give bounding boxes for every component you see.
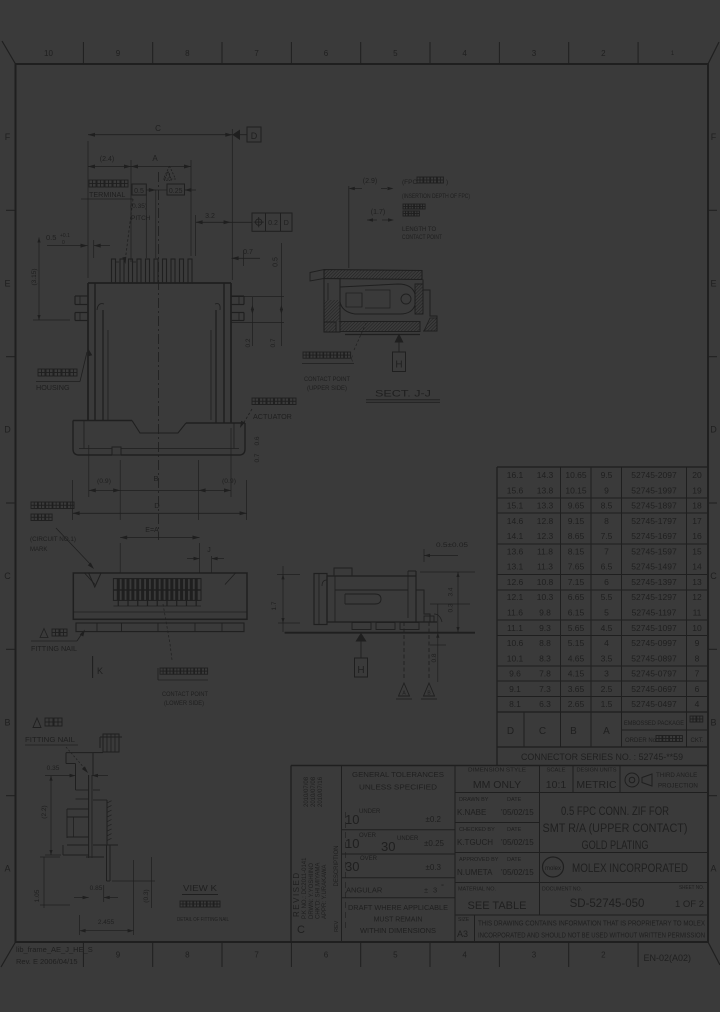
svg-text:DETAIL OF FITTING NAIL: DETAIL OF FITTING NAIL	[177, 917, 229, 923]
border zone numbers bottom	[116, 951, 606, 960]
svg-text:6.3: 6.3	[539, 699, 551, 709]
svg-text:SD-52745-050: SD-52745-050	[570, 898, 645, 910]
material no cell	[458, 887, 526, 913]
border zone letters	[4, 132, 717, 874]
front view right fitting tabs	[231, 296, 244, 321]
svg-text:7.65: 7.65	[568, 562, 585, 572]
svg-text:INCORPORATED AND SHOULD NOT BE: INCORPORATED AND SHOULD NOT BE USED WITH…	[478, 933, 705, 940]
dimension 0.7 right	[232, 249, 260, 266]
view K title	[177, 883, 229, 923]
svg-text:8.65: 8.65	[568, 531, 585, 541]
svg-text:0: 0	[62, 240, 65, 246]
side view actuator lever	[314, 574, 327, 625]
svg-text:20: 20	[692, 470, 702, 480]
svg-text:2: 2	[601, 951, 606, 960]
svg-text:6: 6	[324, 49, 329, 58]
svg-text:1.5: 1.5	[601, 699, 613, 709]
svg-text:A: A	[4, 864, 10, 874]
svg-text:P.K NO.: DC2011-0141: P.K NO.: DC2011-0141	[302, 857, 308, 919]
svg-text:FITTING NAIL: FITTING NAIL	[31, 646, 77, 653]
svg-text:9.15: 9.15	[568, 516, 585, 526]
side view body profile	[327, 568, 437, 622]
svg-text:(2.4): (2.4)	[100, 156, 114, 163]
svg-text:8.8: 8.8	[539, 638, 551, 648]
svg-text:C: C	[710, 571, 717, 581]
svg-text:UNDER: UNDER	[359, 809, 381, 815]
terminal label	[81, 180, 133, 264]
svg-text:15.1: 15.1	[507, 501, 524, 511]
svg-text:14.1: 14.1	[507, 531, 524, 541]
view K dim 1.05	[34, 857, 70, 908]
section J-J terminal	[340, 284, 415, 314]
svg-text:10: 10	[345, 836, 359, 851]
svg-text:7: 7	[254, 49, 259, 58]
svg-text:0.5 FPC CONN. ZIF FOR: 0.5 FPC CONN. ZIF FOR	[561, 806, 669, 818]
svg-text:8.5: 8.5	[601, 501, 613, 511]
svg-text:C: C	[155, 124, 161, 133]
svg-text:4.15: 4.15	[568, 669, 585, 679]
border zone numbers top	[44, 49, 675, 58]
svg-text:UNLESS SPECIFIED: UNLESS SPECIFIED	[359, 783, 437, 792]
right side small vertical dims	[231, 243, 284, 348]
svg-text:(UPPER SIDE): (UPPER SIDE)	[307, 385, 347, 392]
dimension (0.9) right	[199, 428, 236, 520]
svg-text:WITHIN DIMENSIONS: WITHIN DIMENSIONS	[360, 928, 436, 935]
fitting nail label (view K)	[25, 718, 90, 774]
svg-text:16: 16	[692, 531, 702, 541]
revision strip (rotated)	[292, 776, 346, 936]
svg-text:UNDER: UNDER	[397, 836, 419, 842]
svg-text:(INSERTION DEPTH OF FPC): (INSERTION DEPTH OF FPC)	[402, 194, 470, 200]
svg-text:OVER: OVER	[359, 833, 377, 839]
svg-text:0.7: 0.7	[243, 249, 253, 256]
svg-text:N.UMETA: N.UMETA	[457, 868, 493, 877]
svg-text:DATE: DATE	[507, 827, 522, 833]
svg-text:52745-1397: 52745-1397	[631, 577, 677, 587]
svg-text:52745-1597: 52745-1597	[631, 546, 677, 556]
svg-text:DATE: DATE	[507, 797, 522, 803]
dimension B	[120, 474, 198, 490]
svg-text:CHK'D: SHI.MIYAMA: CHK'D: SHI.MIYAMA	[316, 863, 322, 919]
svg-text:APPROVED BY: APPROVED BY	[459, 857, 499, 863]
front view terminals row	[112, 259, 193, 283]
dimension style cell	[468, 768, 526, 792]
svg-text:6.15: 6.15	[568, 608, 585, 618]
svg-text:HOUSING: HOUSING	[36, 383, 70, 392]
svg-text:1 OF 2: 1 OF 2	[675, 899, 704, 910]
svg-text:4: 4	[604, 638, 609, 648]
svg-text:C: C	[539, 726, 546, 737]
svg-text:MARK: MARK	[30, 547, 47, 553]
dimension (2.4)	[88, 156, 131, 262]
svg-text:ORDER No.: ORDER No.	[625, 738, 658, 744]
scale cell	[546, 768, 567, 792]
svg-text:0.5: 0.5	[46, 233, 56, 242]
svg-text:SMT R/A (UPPER CONTACT): SMT R/A (UPPER CONTACT)	[543, 823, 688, 835]
svg-text:(0.3): (0.3)	[143, 889, 150, 902]
svg-text:DOCUMENT NO.: DOCUMENT NO.	[542, 887, 582, 893]
document no cell	[542, 885, 704, 910]
general tolerances block	[345, 770, 448, 935]
svg-text:PROJECTION: PROJECTION	[658, 783, 698, 790]
front view left fitting tabs	[75, 296, 88, 321]
svg-text:K: K	[97, 666, 103, 676]
svg-text:52745-1297: 52745-1297	[631, 592, 677, 602]
svg-text:K.NABE: K.NABE	[457, 808, 486, 817]
svg-text:3.65: 3.65	[568, 684, 585, 694]
svg-text:4: 4	[462, 49, 467, 58]
svg-text:MUST REMAIN: MUST REMAIN	[374, 917, 423, 924]
view K arrow	[93, 656, 103, 678]
dimension (0.9) left	[89, 445, 120, 520]
svg-text:SEE TABLE: SEE TABLE	[468, 900, 527, 912]
svg-text:DRWN: Y.YOSHIINO: DRWN: Y.YOSHIINO	[309, 863, 315, 919]
boxed 0.25 dim	[146, 172, 196, 259]
svg-text:12.8: 12.8	[537, 516, 554, 526]
svg-text:14.3: 14.3	[537, 470, 554, 480]
svg-text:10.8: 10.8	[537, 577, 554, 587]
title block grid	[291, 766, 708, 943]
svg-text:K.TGUCH: K.TGUCH	[457, 838, 493, 847]
position tolerance box 0.2 D	[252, 213, 292, 231]
svg-text:GENERAL TOLERANCES: GENERAL TOLERANCES	[352, 770, 444, 779]
contact length labels	[402, 204, 442, 241]
svg-text:CONTACT POINT: CONTACT POINT	[162, 691, 208, 698]
svg-text:VIEW K: VIEW K	[183, 883, 217, 893]
svg-text:SCALE: SCALE	[546, 768, 565, 774]
svg-text:9.8: 9.8	[539, 608, 551, 618]
svg-text:±: ±	[424, 886, 428, 895]
svg-text:30: 30	[345, 859, 359, 874]
svg-text:15.6: 15.6	[507, 485, 524, 495]
svg-text:8: 8	[185, 49, 190, 58]
view K dim (0.3) right	[112, 857, 155, 908]
svg-text:52745-0997: 52745-0997	[631, 638, 677, 648]
svg-text:7: 7	[695, 669, 700, 679]
third angle projection symbol	[625, 772, 698, 790]
svg-text:2010/07/16: 2010/07/16	[318, 776, 324, 807]
svg-text:3: 3	[532, 49, 537, 58]
view K dim 0.35	[47, 765, 108, 790]
svg-text:SIZE: SIZE	[458, 917, 470, 923]
svg-text:D: D	[251, 131, 258, 141]
svg-text:13.6: 13.6	[507, 546, 524, 556]
side view H datum arrow	[355, 633, 368, 677]
svg-text:9.6: 9.6	[509, 669, 521, 679]
svg-text:14: 14	[692, 562, 702, 572]
svg-text:2: 2	[601, 49, 606, 58]
svg-text:9: 9	[116, 49, 121, 58]
svg-text:7: 7	[604, 546, 609, 556]
datum D flag	[232, 127, 261, 142]
dimension J	[187, 547, 224, 573]
size + proprietary note	[457, 917, 705, 940]
svg-text:5: 5	[393, 951, 398, 960]
svg-text:F: F	[711, 132, 717, 142]
svg-text:0.6: 0.6	[254, 436, 261, 445]
table header row	[507, 716, 704, 744]
dimension 3.2 with position tolerance	[196, 213, 252, 256]
svg-text:APPR: Y.URAKAWA: APPR: Y.URAKAWA	[322, 865, 328, 919]
svg-text:D: D	[710, 425, 717, 435]
svg-text:5.65: 5.65	[568, 623, 585, 633]
svg-text:10.1: 10.1	[507, 653, 524, 663]
svg-text:'05/02/15: '05/02/15	[501, 838, 534, 847]
svg-text:A: A	[710, 864, 716, 874]
front view actuator	[73, 421, 245, 456]
svg-text:DIMENSION STYLE: DIMENSION STYLE	[468, 768, 526, 774]
svg-text:12.3: 12.3	[537, 531, 554, 541]
svg-text:10: 10	[44, 49, 53, 58]
svg-text:11.8: 11.8	[537, 546, 553, 556]
svg-text:4.65: 4.65	[568, 653, 585, 663]
svg-text:12.1: 12.1	[507, 592, 524, 602]
svg-text:1.7: 1.7	[271, 601, 278, 610]
svg-text:7.5: 7.5	[601, 531, 613, 541]
svg-text:A: A	[603, 726, 610, 737]
svg-text:52745-1497: 52745-1497	[631, 562, 677, 572]
svg-text:E: E	[710, 278, 716, 288]
svg-text:PITCH: PITCH	[131, 215, 151, 222]
svg-text:6: 6	[604, 577, 609, 587]
svg-text:9.65: 9.65	[568, 501, 585, 511]
svg-text:0.85: 0.85	[90, 885, 103, 892]
svg-text:(FPC: (FPC	[402, 179, 417, 186]
section J-J right hatched body	[415, 280, 437, 332]
side view solder pads	[352, 614, 442, 630]
svg-text:52745-2097: 52745-2097	[631, 470, 677, 480]
svg-text:0.35: 0.35	[47, 765, 60, 772]
svg-text:DRAFT WHERE APPLICABLE: DRAFT WHERE APPLICABLE	[348, 905, 448, 912]
svg-text:'05/02/15: '05/02/15	[501, 868, 534, 877]
circuit no.1 V mark	[89, 573, 101, 587]
svg-text:CONTACT POINT: CONTACT POINT	[402, 235, 442, 241]
svg-text:8.15: 8.15	[568, 546, 585, 556]
svg-text:8.3: 8.3	[539, 653, 551, 663]
view K dim 0.85	[74, 860, 118, 902]
svg-text:7.15: 7.15	[568, 577, 585, 587]
svg-text:18: 18	[692, 501, 702, 511]
svg-text:13.1: 13.1	[507, 562, 524, 572]
svg-text:3: 3	[433, 886, 437, 895]
housing label	[36, 348, 92, 392]
dimension A	[131, 154, 191, 256]
svg-text:2.5: 2.5	[601, 684, 613, 694]
svg-text:10:1: 10:1	[546, 779, 567, 791]
svg-text:12.6: 12.6	[507, 577, 524, 587]
svg-text:6: 6	[695, 684, 700, 694]
svg-text:16.1: 16.1	[507, 470, 524, 480]
svg-text:(LOWER SIDE): (LOWER SIDE)	[164, 700, 204, 707]
svg-text:METRIC: METRIC	[576, 779, 617, 791]
svg-text:D: D	[4, 425, 11, 435]
view K dim (2.2)	[41, 776, 61, 855]
svg-text:0.8: 0.8	[431, 653, 438, 662]
front view centerline	[158, 172, 160, 540]
bottom view body	[73, 573, 247, 619]
front view housing outline	[88, 283, 231, 423]
svg-text:GOLD PLATING: GOLD PLATING	[582, 840, 649, 852]
svg-text:52745-1897: 52745-1897	[631, 501, 677, 511]
svg-text:FITTING NAIL: FITTING NAIL	[25, 737, 75, 744]
svg-text:DATE: DATE	[507, 857, 522, 863]
svg-text:52745-1097: 52745-1097	[631, 623, 677, 633]
svg-text:52745-1197: 52745-1197	[632, 608, 677, 618]
svg-text:B: B	[153, 474, 158, 483]
svg-text:7: 7	[254, 951, 259, 960]
svg-text:±0.25: ±0.25	[424, 839, 445, 848]
svg-text:0.3: 0.3	[448, 603, 455, 612]
dimension C	[88, 124, 232, 280]
contact length dim (1.7)	[367, 209, 394, 222]
svg-text:MATERIAL NO.: MATERIAL NO.	[458, 887, 496, 893]
frame footer text	[16, 945, 691, 966]
contact point (upper) label	[302, 321, 367, 392]
svg-text:5: 5	[604, 608, 609, 618]
svg-text:10: 10	[692, 623, 702, 633]
svg-text:CONNECTOR SERIES NO. : 52745-*: CONNECTOR SERIES NO. : 52745-**59	[521, 752, 683, 762]
svg-text:0.5: 0.5	[134, 188, 144, 195]
part number table grid	[291, 467, 708, 766]
svg-text:(1.7): (1.7)	[371, 209, 385, 216]
svg-text:9.5: 9.5	[601, 470, 613, 480]
svg-text:9.1: 9.1	[509, 684, 521, 694]
svg-text:8.1: 8.1	[509, 699, 521, 709]
svg-text:DESCRIPTION: DESCRIPTION	[334, 845, 340, 886]
svg-text:THIS DRAWING CONTAINS INFORMAT: THIS DRAWING CONTAINS INFORMATION THAT I…	[478, 921, 705, 928]
svg-text:2.455: 2.455	[98, 919, 115, 926]
svg-text:DRAWN BY: DRAWN BY	[459, 797, 489, 803]
svg-text:8: 8	[604, 516, 609, 526]
connector series note	[521, 752, 683, 762]
svg-text:B: B	[4, 717, 10, 727]
section H datum arrow	[393, 334, 406, 372]
svg-text:52745-0897: 52745-0897	[631, 653, 677, 663]
svg-text:2010/07/08: 2010/07/08	[311, 776, 317, 807]
molex logo	[543, 857, 564, 877]
svg-text:5.15: 5.15	[568, 638, 585, 648]
svg-text:TERMINAL: TERMINAL	[89, 190, 125, 199]
svg-text:2.65: 2.65	[568, 699, 585, 709]
section title SECT J-J	[366, 389, 440, 403]
section J-J bottom hatched bar	[340, 322, 420, 335]
svg-text:D: D	[154, 501, 160, 510]
svg-text:F: F	[5, 132, 11, 142]
drawn/checked/approved cells	[457, 797, 534, 877]
pcb mounting line	[285, 632, 475, 634]
svg-text:CKT.: CKT.	[690, 738, 703, 744]
svg-text:4: 4	[695, 699, 700, 709]
svg-text:9: 9	[695, 638, 700, 648]
svg-text:12: 12	[692, 592, 702, 602]
svg-text:±0.2: ±0.2	[425, 815, 441, 824]
svg-text:8: 8	[185, 951, 190, 960]
svg-text:10.6: 10.6	[507, 638, 524, 648]
company name	[572, 861, 688, 875]
actuator small dims 0.6 0.7	[254, 436, 261, 462]
svg-text:1.05: 1.05	[34, 889, 41, 902]
reference triangles A B	[396, 622, 437, 699]
svg-text:13.8: 13.8	[537, 485, 554, 495]
svg-text:SHEET NO.: SHEET NO.	[679, 885, 704, 891]
svg-text:+0.1: +0.1	[60, 233, 70, 239]
svg-text:11.6: 11.6	[507, 608, 523, 618]
fitting nail label (bottom view)	[31, 629, 87, 654]
svg-text:30: 30	[381, 839, 395, 854]
svg-text:0.5±0.05: 0.5±0.05	[436, 542, 468, 549]
svg-text:LENGTH TO: LENGTH TO	[402, 227, 436, 233]
svg-text:5: 5	[393, 49, 398, 58]
svg-text:0.2: 0.2	[245, 338, 252, 347]
svg-text:lib_frame_AE_J_HE_S: lib_frame_AE_J_HE_S	[16, 945, 93, 954]
svg-text:OVER: OVER	[360, 856, 378, 862]
svg-text:(3.15): (3.15)	[31, 269, 38, 286]
svg-text:10.3: 10.3	[537, 592, 554, 602]
svg-text:(2.2): (2.2)	[41, 805, 48, 818]
svg-text:CONTACT POINT: CONTACT POINT	[304, 376, 350, 383]
svg-text:0.5: 0.5	[273, 257, 280, 267]
left vertical dim (3.15)	[31, 238, 70, 321]
side view left dim 1.7	[271, 566, 300, 632]
svg-text:(0.35): (0.35)	[130, 203, 147, 210]
svg-text:52745-1797: 52745-1797	[631, 516, 677, 526]
svg-text:5.5: 5.5	[601, 592, 613, 602]
svg-text:C: C	[4, 571, 11, 581]
svg-text:6.65: 6.65	[568, 592, 585, 602]
svg-text:MOLEX INCORPORATED: MOLEX INCORPORATED	[572, 861, 688, 875]
view K dim 2.455	[80, 860, 134, 935]
drawing title	[543, 806, 688, 852]
svg-text:10.15: 10.15	[565, 485, 587, 495]
svg-text:Rev. E 2006/04/15: Rev. E 2006/04/15	[16, 957, 78, 966]
svg-text:): )	[446, 179, 448, 186]
svg-text:D: D	[284, 220, 289, 227]
svg-text:9: 9	[116, 951, 121, 960]
svg-text:11: 11	[693, 608, 702, 618]
bottom view contact comb	[113, 579, 201, 606]
svg-text:C: C	[297, 924, 305, 936]
svg-text:14.6: 14.6	[507, 516, 524, 526]
side view dim 0.5+-0.05	[424, 542, 468, 562]
svg-text:10.65: 10.65	[565, 470, 587, 480]
svg-text:0.25: 0.25	[169, 188, 183, 195]
svg-text:°: °	[441, 882, 444, 891]
svg-text:'05/02/15: '05/02/15	[501, 808, 534, 817]
svg-text:A: A	[152, 154, 158, 163]
svg-text:4.5: 4.5	[601, 623, 613, 633]
svg-text:7.8: 7.8	[539, 669, 551, 679]
svg-text:8: 8	[695, 653, 700, 663]
circuit no.1 mark label	[30, 502, 95, 570]
svg-text:3: 3	[604, 669, 609, 679]
svg-text:0.7: 0.7	[270, 338, 277, 347]
svg-text:H: H	[357, 665, 364, 676]
revision triangle mark	[164, 166, 176, 180]
svg-text:REVISED: REVISED	[292, 871, 301, 917]
svg-text:3.4: 3.4	[448, 587, 455, 596]
svg-text:6: 6	[324, 951, 329, 960]
svg-text:B: B	[570, 726, 577, 737]
svg-text:4: 4	[462, 951, 467, 960]
dimension D	[73, 480, 247, 520]
svg-text:ACTUATOR: ACTUATOR	[253, 412, 292, 421]
dimension E=A	[120, 527, 199, 573]
svg-text:SECT. J-J: SECT. J-J	[375, 389, 431, 399]
contact point (lower) label	[158, 604, 208, 707]
svg-text:CHECKED BY: CHECKED BY	[459, 827, 495, 833]
svg-text:D: D	[507, 726, 514, 737]
svg-text:2010/07/08: 2010/07/08	[304, 776, 310, 807]
